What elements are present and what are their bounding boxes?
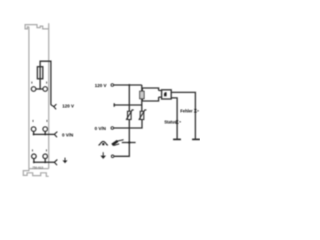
filter box bbox=[142, 88, 158, 101]
wire 120V down to fuse bbox=[141, 85, 143, 91]
svg-text:0 V/N: 0 V/N bbox=[95, 126, 106, 131]
terminal number row1 right bbox=[45, 82, 48, 84]
svg-text:750-613: 750-613 bbox=[32, 166, 43, 170]
row2 bus bar bbox=[34, 133, 55, 135]
left column from 120V bbox=[128, 85, 130, 111]
wire A box to error column bbox=[171, 92, 195, 138]
wire fuse bottom down bbox=[141, 99, 143, 112]
junction dot earth bbox=[128, 141, 131, 144]
module right edge bbox=[48, 23, 50, 168]
terminal number row3 right bbox=[45, 149, 48, 151]
wire A box to status column bbox=[171, 98, 177, 139]
varistor RV1 bbox=[128, 111, 132, 119]
terminal circle 0V/N bbox=[111, 127, 114, 130]
terminal number row1 left bbox=[30, 82, 33, 84]
svg-text:0 V/N: 0 V/N bbox=[62, 132, 73, 137]
wire 0V/N line bbox=[114, 120, 142, 129]
fuse F2 bbox=[140, 91, 144, 99]
LED status bbox=[176, 120, 179, 123]
terminal number row2 right bbox=[46, 120, 49, 122]
junction row1 bbox=[39, 88, 41, 90]
ground symbol bbox=[102, 152, 104, 155]
bus bar error bbox=[192, 139, 200, 141]
module DIN-rail foot bbox=[23, 169, 48, 177]
junction dot 120V bbox=[128, 84, 130, 86]
terminal number row2 left bbox=[32, 120, 35, 122]
LED error bbox=[194, 109, 197, 112]
terminal row2 right circle bbox=[43, 127, 48, 132]
row3 bus bar bbox=[34, 161, 54, 163]
terminal 1 circle bbox=[31, 87, 36, 92]
module housing outline (left side view) bbox=[23, 23, 48, 176]
wire fuse up over to right contact bbox=[40, 61, 51, 105]
ground symbol at power contact 3 bbox=[64, 158, 66, 161]
power contact arrow (earth) bbox=[112, 141, 118, 145]
terminal row3 right circle bbox=[43, 154, 48, 159]
A box bbox=[162, 90, 172, 99]
row2 stubs bbox=[34, 131, 46, 134]
varistor RV2 bbox=[140, 111, 144, 119]
wire 120V line bbox=[114, 84, 142, 86]
terminal circle earth bbox=[111, 155, 114, 158]
riser earth to row3 bbox=[114, 143, 129, 157]
module bottom line bbox=[29, 168, 49, 170]
svg-text:Fehler: Fehler bbox=[180, 108, 193, 113]
row3 stubs bbox=[34, 159, 45, 163]
left varistor down to earth bbox=[128, 120, 130, 143]
stubs filter box to A box bbox=[159, 91, 162, 98]
fuse F1 inside module bbox=[37, 67, 42, 79]
power jumper contact 1 bbox=[51, 104, 56, 109]
power jumper contact 3 bbox=[54, 160, 57, 165]
tap line with T end bbox=[114, 103, 142, 107]
power jumper contact 2 bbox=[54, 132, 57, 137]
wire between row1 terminals bbox=[36, 88, 43, 90]
terminal row3 left circle bbox=[32, 154, 37, 159]
svg-text:120 V: 120 V bbox=[95, 83, 107, 88]
terminal number row3 left bbox=[31, 149, 34, 151]
module left edge bbox=[28, 27, 30, 169]
terminal circle 120V bbox=[111, 84, 114, 87]
rail contact symbol (dome) bbox=[100, 141, 107, 145]
bus bar status bbox=[173, 139, 181, 141]
row3 junction dots bbox=[33, 161, 35, 163]
glyph in A box bbox=[164, 92, 167, 96]
wire fuse to terminal row 1 bbox=[39, 79, 41, 89]
terminal row2 left circle bbox=[31, 127, 36, 132]
earth rail line bbox=[122, 142, 136, 144]
svg-text:120 V: 120 V bbox=[62, 104, 74, 109]
svg-text:Status: Status bbox=[164, 120, 177, 125]
terminal 4 circle bbox=[43, 87, 48, 92]
module top profile bbox=[25, 25, 49, 29]
row2 junction dots bbox=[33, 133, 35, 135]
